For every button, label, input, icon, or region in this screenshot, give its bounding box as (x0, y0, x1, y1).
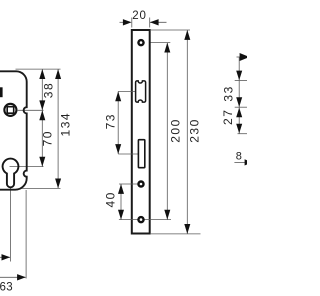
dimension line 134 (57, 69, 59, 188)
latch cutout (136, 81, 146, 102)
extension line middle screw hole (119, 183, 141, 185)
extension line follower axis (18, 109, 44, 111)
arrow down 70 bottom (39, 157, 45, 167)
arrow right 8 dim (245, 159, 252, 165)
dimension line to cylinder axis (0, 256, 10, 258)
arrow down 40 bottom (118, 210, 124, 220)
arrow right cylinder axis dim (2, 254, 11, 260)
arrow up 70 top (39, 110, 45, 120)
arrow up 134 top (55, 69, 61, 79)
arrow down 33 bottom (236, 97, 242, 107)
svg-text:27: 27 (221, 109, 235, 125)
dimension line right chain (238, 57, 240, 134)
dimension line 20 left tail (120, 21, 127, 23)
svg-text:38: 38 (42, 82, 56, 98)
svg-text:20: 20 (132, 10, 146, 22)
follower ring (4, 104, 16, 116)
svg-text:134: 134 (58, 112, 72, 137)
extension line cylinder axis vertical (9, 188, 11, 262)
extension line bottom screw hole long (119, 219, 171, 221)
bottom screw hole (137, 216, 145, 224)
extension line bottom of case (21, 187, 61, 189)
extension line 27 bottom (238, 133, 248, 135)
dimension line 73 (117, 91, 119, 154)
arrow down 230 bottom (184, 224, 190, 234)
arrow down to 33 top (236, 71, 242, 81)
extension line top screw hole (146, 42, 170, 44)
dimension line 20 right tail (150, 21, 167, 23)
arrow up 200 top (164, 43, 170, 53)
arrow down 38 bottom (39, 100, 45, 110)
extension line deadbolt axis (118, 153, 138, 155)
square hole cut by image edge (0, 87, 3, 97)
svg-text:200: 200 (169, 118, 183, 143)
arrow right 20 left (123, 19, 132, 25)
arrow left 20 right (150, 19, 159, 25)
dimension line 40 (120, 184, 122, 220)
extension line 33 top (235, 80, 247, 82)
arrow down 27 bottom (236, 124, 242, 134)
arrow up 27 top (236, 108, 242, 118)
extension line plate top right (151, 29, 190, 31)
extension line top of case (16, 68, 61, 70)
svg-text:70: 70 (40, 130, 54, 146)
extension line cylinder axis (10, 166, 44, 168)
arrow right top cropped (240, 53, 250, 61)
dimension line 200 (166, 43, 168, 220)
dimension line 38/70 (41, 69, 43, 167)
arrow down 134 bottom (55, 179, 61, 189)
dimension tail top arrow (237, 56, 241, 58)
svg-text:230: 230 (188, 118, 202, 143)
arrow right 63 dim (17, 274, 26, 280)
arrow up 73 top (115, 91, 121, 101)
svg-text:33: 33 (222, 85, 236, 101)
extension line plate left top (131, 18, 133, 28)
deadbolt cutout (138, 140, 144, 168)
euro profile cylinder hole (3, 159, 19, 188)
dimension line 230 (186, 30, 188, 234)
lock case outline (0, 71, 27, 189)
arrow up 40 top (118, 184, 124, 194)
svg-text:8: 8 (236, 150, 242, 162)
extension line case front vertical (25, 190, 27, 279)
follower square hole (7, 107, 14, 114)
arrow up 38 top (39, 69, 45, 79)
svg-text:73: 73 (104, 113, 118, 129)
faceplate outline (132, 30, 150, 234)
extension line plate bottom right (151, 233, 201, 235)
arrow down 200 bottom (164, 210, 170, 220)
extension line 33/27 middle (235, 106, 247, 108)
arrow up 230 top (184, 30, 190, 40)
extension line latch axis (118, 90, 135, 92)
top screw hole (137, 39, 145, 47)
arrow down 73 bottom (115, 144, 121, 154)
middle screw hole (137, 180, 145, 188)
svg-text:63: 63 (0, 282, 13, 294)
dimension line 8 (234, 161, 245, 163)
dimension line 63 (0, 276, 26, 278)
svg-text:40: 40 (104, 191, 118, 207)
extension line plate right top (149, 18, 151, 28)
